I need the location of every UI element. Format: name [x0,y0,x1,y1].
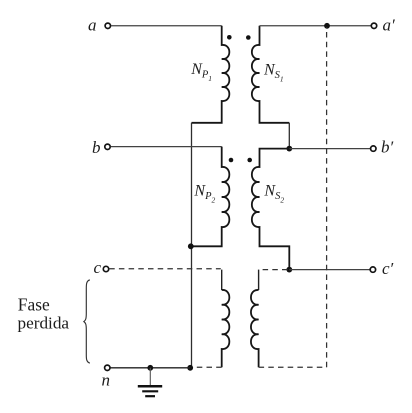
junction node ground tap [147,365,153,371]
wire neutral riser [191,123,193,368]
terminal c' [370,267,375,272]
winding NP3 (phantom primary) [222,290,230,367]
svg-text:NP2: NP2 [193,182,215,204]
svg-text:NS2: NS2 [263,183,284,205]
polarity dot NP2 [229,158,234,163]
ground [138,368,162,396]
wire n [110,367,190,369]
winding NS1 (secondary 1) [252,26,289,123]
wire b to NP2 [111,146,222,148]
svg-text:Fase: Fase [18,294,50,314]
wire c' [289,269,370,271]
winding NP1 (primary 1) [192,26,230,123]
terminal b' [371,146,376,151]
junction node b' [286,146,292,152]
polarity dot NS2 [247,158,252,163]
svg-text:c: c [94,258,102,277]
junction node neutral-NP2 [188,243,194,249]
wire phantom secondary top dashed [259,269,288,271]
wire phantom secondary bottom dashed [259,366,327,368]
svg-text:perdida: perdida [18,313,70,332]
terminal a [105,23,110,28]
terminal c [103,266,108,271]
winding NP2 (primary 2) [191,147,229,247]
wire a to NP1 [111,25,222,27]
wire phantom primary riser dashed [221,270,223,290]
terminal b [105,144,110,149]
wire phantom secondary riser dashed [258,270,260,290]
wire NS1 to a' [260,25,372,27]
svg-text:NP1: NP1 [190,61,212,83]
junction node a' branch [324,23,330,29]
winding NS2 (secondary 2) [252,149,289,270]
polarity dot NS1 [246,35,251,40]
svg-text:b′: b′ [381,138,394,157]
terminal a' [371,23,376,28]
wire phantom delta return dashed [326,27,328,367]
svg-text:n: n [102,371,111,390]
svg-text:b: b [92,138,101,157]
terminal n [105,365,110,370]
winding NS3 (phantom secondary) [251,290,259,367]
brace fase perdida [84,280,90,363]
svg-text:a: a [88,15,97,34]
wire phantom primary bottom dashed [192,366,222,368]
wire c dashed [109,268,221,270]
svg-text:NS1: NS1 [263,62,284,84]
svg-text:a′: a′ [383,16,396,35]
wire NS1 bottom to b' junction [288,123,290,149]
junction node c' [286,267,292,273]
polarity dot NP1 [227,35,232,40]
svg-text:c′: c′ [382,259,394,278]
wire b' [289,148,370,150]
junction node neutral-n [187,365,193,371]
